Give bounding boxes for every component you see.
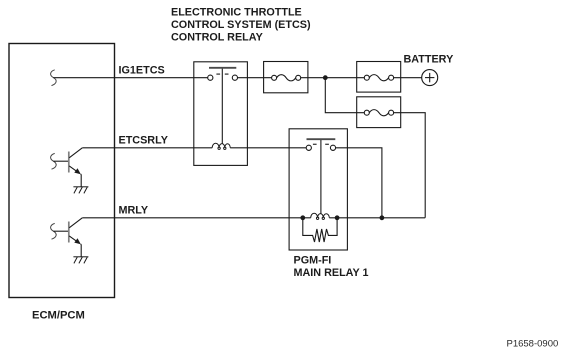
Q2 collector <box>69 218 82 228</box>
wire junction down to fuse 3 <box>325 78 364 113</box>
connector pin squiggle (IG1ETCS) <box>51 70 57 86</box>
wire Q1 emitter to ground <box>80 174 82 187</box>
svg-text:ECM/PCM: ECM/PCM <box>32 309 85 321</box>
svg-text:IG1ETCS: IG1ETCS <box>119 65 165 77</box>
node dot coil left <box>300 215 305 220</box>
ETCS control relay box <box>194 62 248 166</box>
battery terminal <box>422 70 438 86</box>
transistor Q1 (ETCSRLY driver) <box>51 148 89 194</box>
relay K1 contact bar <box>209 67 236 69</box>
PGM-FI main relay box <box>289 129 347 250</box>
connector squiggle Q1 base <box>51 153 57 169</box>
svg-text:MAIN RELAY 1: MAIN RELAY 1 <box>294 267 369 279</box>
wire ETCSRLY row (ECM to coil) <box>82 147 212 149</box>
relay K2 contact terminal circles <box>306 145 311 150</box>
transistor Q2 (MRLY driver) <box>51 218 89 264</box>
relay K2 contact dashes <box>313 143 317 145</box>
Q2 emitter arrowhead <box>74 238 81 244</box>
title: ELECTRONIC THROTTLE CONTROL SYSTEM (ETCS) CONTROL RELAY <box>171 7 311 44</box>
wire K1 contact to fuse 1 <box>238 77 272 79</box>
ground G2 <box>73 257 88 264</box>
ECM/PCM box <box>9 44 115 298</box>
resistor R1 parallel with coil <box>303 218 337 242</box>
Q1 emitter <box>69 166 79 173</box>
wire IG1ETCS row <box>53 77 207 79</box>
wire Q2 emitter to ground <box>80 244 82 257</box>
Q1 emitter arrowhead <box>74 168 81 174</box>
fuse F2 box <box>357 62 401 93</box>
wire MRLY row coil to corner <box>329 217 425 219</box>
svg-text:P1658-0900: P1658-0900 <box>507 338 559 349</box>
relay K1 contact terminal circles <box>208 75 213 80</box>
wire fuse 1 to fuse 2 <box>301 77 365 79</box>
svg-text:PGM-FI: PGM-FI <box>294 254 332 266</box>
node dot coil right <box>335 215 340 220</box>
wire fuse 3 right, down to MRLY row <box>394 113 426 218</box>
svg-text:ETCSRLY: ETCSRLY <box>119 135 169 147</box>
fuse F3 box <box>357 97 401 128</box>
Q1 collector <box>69 148 82 158</box>
relay K2 coil <box>311 213 330 219</box>
ground G1 <box>73 187 88 194</box>
node dot at K2/MRLY junction <box>380 215 385 220</box>
relay K2 contact bar <box>307 138 336 140</box>
fuse F3 symbol <box>364 110 393 116</box>
Q1 base bar <box>68 152 70 173</box>
Q2 emitter <box>69 236 79 243</box>
wire Q1 base <box>53 160 68 162</box>
connector squiggle Q2 base <box>51 223 57 239</box>
relay K2 plunger stem <box>320 140 322 214</box>
svg-text:BATTERY: BATTERY <box>404 54 455 66</box>
wire fuse 2 to battery <box>394 77 422 79</box>
wire MRLY row (ECM to coil) <box>82 217 310 219</box>
fuse F1 symbol <box>272 75 301 81</box>
junction node dot <box>323 75 328 80</box>
Q2 base bar <box>68 222 70 243</box>
wire ETCSRLY row to K2 contact <box>230 147 306 149</box>
relay K1 contact dashes <box>216 73 220 75</box>
svg-text:MRLY: MRLY <box>119 205 149 217</box>
relay K1 plunger stem <box>221 69 223 144</box>
fuse F1 box <box>264 62 308 93</box>
wire K2 contact right, down to MRLY row <box>336 148 382 218</box>
wire Q2 base <box>53 230 68 232</box>
fuse F2 symbol <box>364 75 393 81</box>
svg-text:CONTROL RELAY: CONTROL RELAY <box>171 32 264 44</box>
relay K1 coil <box>212 143 230 149</box>
svg-text:ELECTRONIC THROTTLE: ELECTRONIC THROTTLE <box>171 7 302 19</box>
svg-text:CONTROL SYSTEM (ETCS): CONTROL SYSTEM (ETCS) <box>171 19 311 31</box>
